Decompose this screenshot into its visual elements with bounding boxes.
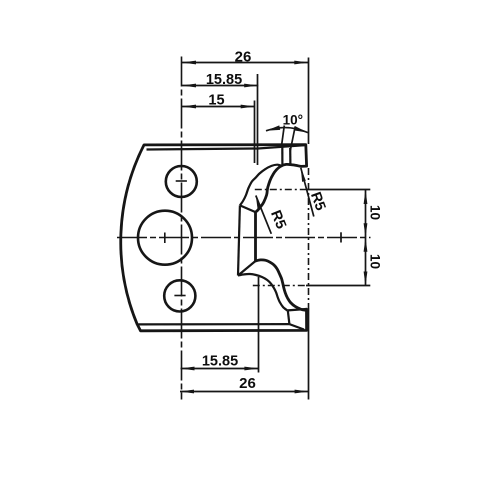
- dimension line 10-10 right: [365, 190, 367, 286]
- bottom bevel inner line: [139, 323, 290, 325]
- bottom facet top edge: [288, 309, 306, 310]
- inner edge lines: [139, 145, 307, 329]
- angle 10 leg right: [290, 127, 295, 151]
- arrow 15 top left: [182, 105, 196, 109]
- arrow angle right: [294, 126, 308, 133]
- angle 10 leg left: [282, 126, 285, 146]
- center tick: [340, 232, 342, 242]
- lower ogee heel line: [238, 274, 288, 311]
- svg-text:R5: R5: [307, 190, 328, 213]
- arrow 26 bottom right: [295, 390, 309, 394]
- svg-text:R5: R5: [267, 208, 289, 231]
- arrow leader R5 left: [256, 196, 261, 210]
- center tick circle H1: [176, 180, 187, 182]
- upper shoulder slant: [240, 205, 256, 212]
- arrow 26 top right: [294, 61, 308, 65]
- dimension 26 top: [182, 62, 308, 64]
- arrow 15.85 top left: [182, 84, 196, 88]
- dimension 15 top: [182, 106, 255, 108]
- svg-text:10: 10: [367, 205, 382, 220]
- svg-text:26: 26: [239, 375, 256, 392]
- centerline horizontal: [117, 237, 371, 239]
- dimension 26 bottom: [180, 391, 309, 393]
- svg-text:26: 26: [235, 48, 252, 65]
- bottom facet bottom edge: [289, 324, 304, 329]
- svg-text:15.85: 15.85: [206, 72, 242, 88]
- extension line 15 top: [254, 101, 256, 164]
- extension line 15.85 bottom: [258, 277, 260, 373]
- extension line 15.85 top: [257, 74, 259, 165]
- top bevel strip edge: [281, 147, 283, 166]
- top facet left edge: [289, 148, 291, 166]
- center tick circle H2: [164, 233, 166, 244]
- hole center bore: [138, 211, 192, 265]
- dimension 15.85 bottom: [181, 368, 259, 370]
- arrow 10 bottom down: [364, 272, 368, 286]
- dimension 15.85 top: [182, 85, 258, 87]
- part outline: [121, 145, 307, 331]
- arrow 15.85 bottom right: [244, 367, 258, 371]
- extension line 10 top: [255, 189, 306, 191]
- arrow 26 top left: [182, 61, 196, 65]
- arrow 15.85 top right: [244, 84, 258, 88]
- extension line 10 bottom: [253, 285, 306, 287]
- svg-text:15.85: 15.85: [202, 353, 238, 369]
- centerline vertical: [181, 57, 183, 400]
- center tick circle H3: [174, 295, 185, 297]
- top bevel inner line: [147, 145, 306, 149]
- extension line 26 right bottom: [308, 168, 310, 308]
- upper ogee heel line: [240, 165, 283, 206]
- svg-text:15: 15: [208, 92, 224, 108]
- angle 10 arc: [266, 128, 308, 133]
- arrow 15.85 bottom left: [181, 367, 195, 371]
- lower shoulder slant: [238, 261, 256, 276]
- arrow 10 top up: [364, 190, 368, 204]
- svg-text:10: 10: [367, 254, 382, 269]
- hole bottom: [164, 280, 195, 311]
- arrow 10 mid up: [364, 238, 368, 252]
- leader R5 left: [256, 196, 271, 234]
- heel flat line: [238, 205, 240, 275]
- arrow 10 mid down: [364, 223, 368, 237]
- svg-text:10°: 10°: [283, 113, 303, 128]
- arrow 15 top right: [241, 105, 255, 109]
- leader R5 right: [301, 168, 314, 217]
- drawing line work: [117, 57, 371, 400]
- arrow angle left: [266, 125, 280, 130]
- arrow leader R5 right: [301, 168, 306, 182]
- extension line 26 right top: [308, 58, 310, 145]
- hole top: [166, 166, 197, 197]
- bottom facet left edge: [288, 310, 290, 324]
- arrow 26 bottom left: [180, 390, 194, 394]
